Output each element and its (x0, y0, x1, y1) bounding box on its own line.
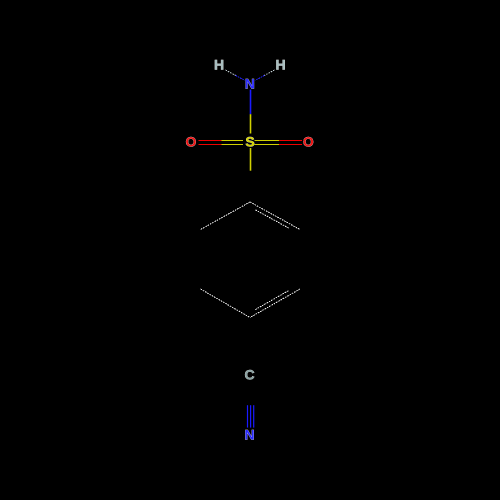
svg-text:N: N (245, 75, 255, 91)
svg-text:O: O (303, 133, 314, 149)
svg-text:O: O (186, 133, 197, 149)
svg-text:H: H (214, 57, 224, 73)
svg-text:S: S (245, 133, 254, 149)
svg-text:N: N (245, 426, 255, 442)
svg-text:C: C (245, 367, 255, 383)
svg-text:H: H (276, 57, 286, 73)
